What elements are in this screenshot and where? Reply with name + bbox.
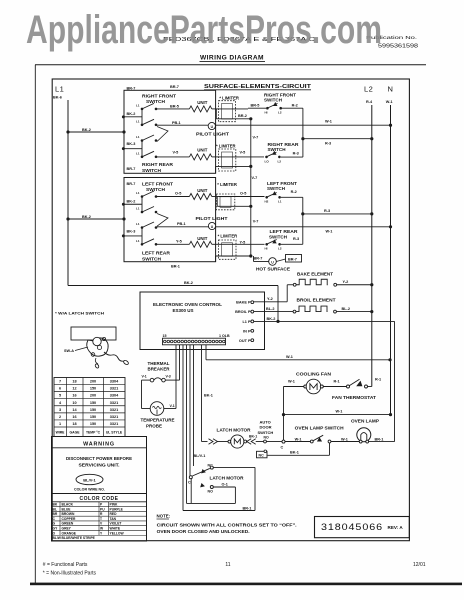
cooling fan motor xyxy=(284,371,347,394)
svg-text:* LIMITER: * LIMITER xyxy=(218,234,238,239)
svg-text:HI: HI xyxy=(265,246,268,250)
node L1 xyxy=(53,85,64,100)
wire BK-1 return xyxy=(257,443,330,458)
svg-text:GY: GY xyxy=(53,527,59,531)
svg-text:Y-5: Y-5 xyxy=(240,241,246,245)
svg-text:AUTO: AUTO xyxy=(260,419,271,424)
svg-text:FAN THERMOSTAT: FAN THERMOSTAT xyxy=(332,395,376,400)
svg-text:* LIMITER: * LIMITER xyxy=(217,182,237,187)
svg-text:LATCH MOTOR: LATCH MOTOR xyxy=(217,427,252,432)
svg-text:L1: L1 xyxy=(136,239,140,243)
wire R-2 drop 2 xyxy=(302,197,304,244)
svg-text:Y-5: Y-5 xyxy=(176,239,182,243)
svg-text:V-7: V-7 xyxy=(252,176,258,180)
switch right-rear remote xyxy=(265,142,303,163)
svg-text:WIRE: WIRE xyxy=(56,430,66,434)
svg-text:V-1: V-1 xyxy=(142,375,147,379)
switch box S2 outline xyxy=(124,178,216,262)
svg-text:BK-2: BK-2 xyxy=(127,200,136,204)
svg-text:5995361598: 5995361598 xyxy=(378,44,418,50)
svg-text:UL STYLE: UL STYLE xyxy=(106,430,123,434)
svg-text:BROIL ELEMENT: BROIL ELEMENT xyxy=(297,297,336,302)
svg-text:RIGHT FRONT: RIGHT FRONT xyxy=(142,93,176,98)
svg-text:BK-3: BK-3 xyxy=(127,230,136,234)
wire to V7 row B xyxy=(216,165,253,174)
svg-text:L1: L1 xyxy=(136,151,140,155)
svg-text:OVEN LAMP SWITCH: OVEN LAMP SWITCH xyxy=(295,425,344,430)
svg-text:VIOLET: VIOLET xyxy=(110,522,122,526)
limiter C dashed xyxy=(216,182,264,210)
switch left-front remote xyxy=(265,181,303,204)
svg-text:OVEN DOOR CLOSED AND UNLOCKED.: OVEN DOOR CLOSED AND UNLOCKED. xyxy=(157,529,250,534)
svg-text:SWITCH: SWITCH xyxy=(269,234,287,239)
svg-text:16: 16 xyxy=(72,415,76,419)
svg-text:LO: LO xyxy=(265,159,270,163)
svg-text:318045066: 318045066 xyxy=(321,522,383,533)
svg-text:BR-7: BR-7 xyxy=(254,257,263,261)
svg-text:V-5: V-5 xyxy=(240,150,246,154)
wire R-3 row A xyxy=(301,137,373,145)
svg-text:OUT P: OUT P xyxy=(239,339,251,343)
svg-text:L2: L2 xyxy=(278,159,282,163)
svg-text:150: 150 xyxy=(90,415,96,419)
svg-text:BK: BK xyxy=(53,503,58,507)
svg-text:7: 7 xyxy=(59,380,61,384)
svg-text:LATCH MOTOR: LATCH MOTOR xyxy=(210,475,245,480)
svg-text:ORANGE: ORANGE xyxy=(62,531,77,535)
svg-text:3321: 3321 xyxy=(110,401,118,405)
svg-text:BK-1: BK-1 xyxy=(204,394,213,398)
svg-text:SWITCH: SWITCH xyxy=(258,430,274,435)
svg-text:Y-2: Y-2 xyxy=(267,297,273,301)
wire Y-5 row D xyxy=(156,239,189,244)
svg-text:WHITE: WHITE xyxy=(110,527,121,531)
svg-text:PB-1: PB-1 xyxy=(177,222,186,226)
page top rule xyxy=(35,64,426,66)
svg-text:BL/V-1: BL/V-1 xyxy=(83,477,96,482)
resistor UNIT B xyxy=(189,148,219,160)
resistor UNIT D xyxy=(189,236,219,247)
svg-text:150: 150 xyxy=(90,401,96,405)
limiter A dashed xyxy=(219,95,249,121)
switch S2c/S2d pair (left rear) xyxy=(122,234,125,237)
latch motor box wire xyxy=(183,467,255,510)
svg-text:* W/A LATCH SWITCH: * W/A LATCH SWITCH xyxy=(55,311,104,316)
pilot light 1 xyxy=(156,121,391,137)
svg-text:BR-7: BR-7 xyxy=(127,182,136,186)
svg-text:200: 200 xyxy=(90,380,96,384)
svg-text:PURPLE: PURPLE xyxy=(110,507,124,511)
svg-text:T: T xyxy=(100,517,102,521)
svg-text:NO: NO xyxy=(208,490,214,494)
latch motor switch NC xyxy=(188,463,213,484)
wire L1 P feed xyxy=(254,317,395,442)
svg-text:R-3: R-3 xyxy=(293,152,299,156)
svg-text:C: C xyxy=(281,445,284,449)
svg-text:G: G xyxy=(53,522,56,526)
oven lamp switch xyxy=(285,425,359,443)
svg-text:* LIMITER: * LIMITER xyxy=(216,143,236,148)
svg-text:L2: L2 xyxy=(278,246,282,250)
svg-text:R-1: R-1 xyxy=(334,379,340,383)
switch right-front remote xyxy=(248,92,303,114)
svg-text:1 OLB: 1 OLB xyxy=(219,334,230,338)
svg-text:BL-2: BL-2 xyxy=(342,307,350,311)
svg-text:NOTE:: NOTE: xyxy=(157,514,171,519)
svg-text:SWITCH: SWITCH xyxy=(142,168,162,173)
svg-text:BR: BR xyxy=(53,512,58,516)
svg-text:THERMAL: THERMAL xyxy=(148,361,170,366)
wire W-1 to N xyxy=(282,387,392,442)
svg-text:R-3: R-3 xyxy=(324,209,330,213)
svg-text:COLOR CODE: COLOR CODE xyxy=(80,496,119,502)
svg-text:1: 1 xyxy=(59,422,61,426)
svg-text:TEMPERATURE: TEMPERATURE xyxy=(141,417,175,422)
svg-text:R-3: R-3 xyxy=(325,141,331,145)
svg-text:BAKE P: BAKE P xyxy=(236,301,251,305)
svg-text:COLOR WIRE NO.: COLOR WIRE NO. xyxy=(74,488,105,492)
svg-text:BK-1: BK-1 xyxy=(290,451,299,455)
svg-text:BR-5: BR-5 xyxy=(251,103,260,107)
svg-text:W-1: W-1 xyxy=(336,409,343,413)
svg-text:# = Functional Parts: # = Functional Parts xyxy=(43,562,88,568)
svg-text:HOT SURFACE: HOT SURFACE xyxy=(256,267,290,272)
svg-text:L1: L1 xyxy=(55,85,64,94)
svg-text:N: N xyxy=(388,85,393,94)
svg-text:BR-7: BR-7 xyxy=(127,86,136,90)
svg-text:BK-2: BK-2 xyxy=(82,215,91,219)
svg-text:LEFT FRONT: LEFT FRONT xyxy=(142,181,173,186)
svg-text:O-5: O-5 xyxy=(175,192,181,196)
svg-text:W-1: W-1 xyxy=(288,379,295,383)
node N xyxy=(386,85,393,105)
svg-text:L2: L2 xyxy=(278,111,282,115)
svg-text:C: C xyxy=(188,480,191,484)
resistor UNIT C xyxy=(189,188,219,200)
svg-text:COOLING FAN: COOLING FAN xyxy=(296,371,331,376)
svg-text:3321: 3321 xyxy=(110,387,118,391)
switch S1c/S1d pair (right rear) xyxy=(122,147,125,150)
oven control U1 box xyxy=(140,292,265,350)
linkage S1 xyxy=(157,127,168,142)
svg-text:BR-1: BR-1 xyxy=(243,506,252,510)
svg-text:BR-7: BR-7 xyxy=(127,167,136,171)
svg-text:BR-7: BR-7 xyxy=(288,257,297,261)
wire V-7 bus xyxy=(251,119,259,256)
svg-text:COPPER: COPPER xyxy=(62,517,77,521)
svg-text:GREY: GREY xyxy=(62,527,72,531)
svg-text:11: 11 xyxy=(225,562,230,568)
svg-text:BK-1: BK-1 xyxy=(249,435,257,439)
wire N bus xyxy=(390,105,392,415)
svg-text:BL/W: BL/W xyxy=(53,536,62,540)
svg-text:R-2: R-2 xyxy=(292,103,298,107)
wire V-5 row B xyxy=(156,150,189,157)
svg-text:BR-1: BR-1 xyxy=(375,437,384,441)
page bottom thick rule xyxy=(30,583,462,586)
svg-text:WIRING DIAGRAM: WIRING DIAGRAM xyxy=(200,55,264,62)
diagram border frame xyxy=(52,79,409,541)
page left rule xyxy=(34,65,36,583)
svg-text:16: 16 xyxy=(72,394,76,398)
wire BK-2 from L1 to S2 xyxy=(66,215,125,221)
svg-text:BR-5: BR-5 xyxy=(170,104,179,108)
svg-text:3321: 3321 xyxy=(110,415,118,419)
svg-text:R-2: R-2 xyxy=(291,190,297,194)
svg-text:BK-2: BK-2 xyxy=(267,317,276,321)
auto door switch xyxy=(249,419,285,449)
wire V-1 loop xyxy=(142,380,151,408)
fan thermostat xyxy=(332,378,381,401)
svg-text:V-5: V-5 xyxy=(173,150,179,154)
svg-text:150: 150 xyxy=(90,408,96,412)
svg-text:L1: L1 xyxy=(136,207,140,211)
svg-text:BREAKER: BREAKER xyxy=(148,367,171,372)
svg-text:6: 6 xyxy=(59,387,61,391)
svg-text:IN P: IN P xyxy=(243,329,251,333)
svg-text:5: 5 xyxy=(59,394,61,398)
svg-text:BROWN: BROWN xyxy=(62,512,75,516)
text LEFT REAR SWITCH xyxy=(142,251,171,262)
svg-text:OVEN LAMP: OVEN LAMP xyxy=(351,419,379,424)
svg-text:PILOT LIGHT: PILOT LIGHT xyxy=(196,132,229,137)
wire W-1 lower bus xyxy=(206,345,392,362)
svg-text:V-7: V-7 xyxy=(253,135,259,139)
svg-text:PILOT LIGHT: PILOT LIGHT xyxy=(196,216,228,221)
svg-text:SERVICING UNIT.: SERVICING UNIT. xyxy=(79,462,120,467)
latch motor M1 xyxy=(202,427,264,448)
oven lamp xyxy=(351,419,395,443)
text RIGHT FRONT SWITCH xyxy=(142,93,176,104)
svg-text:200: 200 xyxy=(90,394,96,398)
wire BK-2 from L1 to S1 xyxy=(66,128,125,134)
svg-text:PU: PU xyxy=(100,507,105,511)
svg-text:BK-3: BK-3 xyxy=(127,142,136,146)
svg-text:O-5: O-5 xyxy=(240,191,246,195)
wire BK-2 bus to U1 xyxy=(68,281,280,323)
svg-text:GAGE: GAGE xyxy=(70,430,81,434)
svg-text:L1: L1 xyxy=(136,119,140,123)
svg-text:3304: 3304 xyxy=(110,394,119,398)
wire BR-2 to V7 xyxy=(216,109,252,121)
svg-text:BR-7: BR-7 xyxy=(170,85,179,89)
text RIGHT REAR SWITCH xyxy=(142,162,174,173)
wire BL-2 broil feed xyxy=(254,307,293,312)
svg-text:DISCONNECT POWER BEFORE: DISCONNECT POWER BEFORE xyxy=(66,456,132,461)
svg-text:W-1: W-1 xyxy=(286,355,293,359)
svg-text:PROBE: PROBE xyxy=(146,423,162,428)
svg-text:SWITCH: SWITCH xyxy=(146,187,166,192)
svg-text:O: O xyxy=(53,531,56,535)
svg-text:SWITCH: SWITCH xyxy=(142,257,162,262)
title WIRING DIAGRAM xyxy=(200,55,266,62)
svg-text:* = Non-Illustrated Parts: * = Non-Illustrated Parts xyxy=(43,571,97,577)
wire R-2 drop xyxy=(302,108,304,157)
svg-text:R-1: R-1 xyxy=(375,378,381,382)
svg-text:SWITCH: SWITCH xyxy=(268,147,286,152)
svg-text:L1: L1 xyxy=(278,199,282,203)
svg-text:BLUE: BLUE xyxy=(62,507,72,511)
limiter B dashed xyxy=(216,143,264,171)
svg-text:ES300 US: ES300 US xyxy=(173,308,194,313)
part number box xyxy=(315,517,410,538)
svg-text:H2: H2 xyxy=(265,199,269,203)
U1 pin labels xyxy=(235,301,254,343)
svg-text:BLACK: BLACK xyxy=(62,503,74,507)
wire L2 bus xyxy=(371,105,373,387)
hot surface light xyxy=(254,256,291,272)
svg-text:REV: A: REV: A xyxy=(388,525,404,530)
svg-text:V-3: V-3 xyxy=(166,375,171,379)
svg-text:12/01: 12/01 xyxy=(413,562,426,568)
svg-text:15: 15 xyxy=(163,334,167,338)
svg-text:W-1: W-1 xyxy=(341,438,348,442)
wire to V7 row D xyxy=(216,254,253,261)
svg-text:BL/V-1: BL/V-1 xyxy=(194,454,206,458)
wire to V7 row C xyxy=(217,197,252,208)
svg-text:BR-1: BR-1 xyxy=(171,264,180,268)
limiter D dashed xyxy=(218,234,265,260)
svg-text:SWITCH: SWITCH xyxy=(267,186,285,191)
wires from U1 strip down xyxy=(176,345,213,511)
svg-text:Y-2: Y-2 xyxy=(343,280,349,284)
boxed connector BR-7 xyxy=(276,255,301,263)
svg-text:150: 150 xyxy=(90,422,96,426)
svg-text:CIRCUIT SHOWN WITH ALL CONTROL: CIRCUIT SHOWN WITH ALL CONTROLS SET TO “… xyxy=(157,522,297,527)
svg-text:BROIL P: BROIL P xyxy=(235,310,251,314)
latch motor switch NO xyxy=(200,482,228,493)
svg-text:* LIMITER: * LIMITER xyxy=(219,95,239,100)
svg-text:L2: L2 xyxy=(364,85,373,94)
svg-text:UNIT: UNIT xyxy=(197,188,208,193)
publication number xyxy=(366,35,418,50)
svg-text:RIGHT REAR: RIGHT REAR xyxy=(142,162,174,167)
svg-text:R-4: R-4 xyxy=(366,100,373,104)
wire Y-2 to L2 xyxy=(337,280,374,286)
svg-text:O-1: O-1 xyxy=(222,482,228,486)
switch S2a/S2b pair (left front) xyxy=(122,203,125,206)
svg-text:SWITCH: SWITCH xyxy=(146,99,166,104)
svg-text:GREEN: GREEN xyxy=(62,522,74,526)
thermal breaker xyxy=(142,361,180,382)
svg-text:18: 18 xyxy=(72,422,76,426)
wire O-5 row C xyxy=(156,192,189,197)
svg-text:R-3: R-3 xyxy=(293,237,299,241)
svg-text:V-1: V-1 xyxy=(170,404,175,408)
footer legend xyxy=(43,562,97,577)
svg-text:L1 P: L1 P xyxy=(242,320,250,324)
svg-text:10: 10 xyxy=(72,401,76,405)
broil element xyxy=(293,297,336,313)
svg-text:HI: HI xyxy=(265,111,268,115)
linkage S2 xyxy=(157,214,168,227)
svg-text:BK-2: BK-2 xyxy=(127,112,136,116)
temperature probe xyxy=(141,402,177,429)
bake element xyxy=(287,271,336,286)
svg-text:V-7: V-7 xyxy=(253,220,259,224)
svg-text:NO: NO xyxy=(264,435,270,439)
svg-text:BL: BL xyxy=(53,507,57,511)
wire gauge table xyxy=(54,378,125,437)
svg-text:W-1: W-1 xyxy=(326,229,333,233)
svg-text:TAN: TAN xyxy=(110,517,117,521)
wire NO loop xyxy=(187,479,236,504)
node L2 xyxy=(364,85,373,105)
svg-text:3321: 3321 xyxy=(110,422,118,426)
svg-text:UNIT: UNIT xyxy=(197,100,208,105)
svg-text:W-1: W-1 xyxy=(325,119,332,123)
note text xyxy=(157,514,297,534)
resistor UNIT A xyxy=(189,100,219,112)
svg-text:L1: L1 xyxy=(136,103,140,107)
svg-text:ELECTRONIC OVEN CONTROL: ELECTRONIC OVEN CONTROL xyxy=(153,302,222,307)
svg-text:PB-1: PB-1 xyxy=(172,121,181,125)
svg-text:AppliancePartsPros.com: AppliancePartsPros.com xyxy=(26,8,382,52)
svg-text:BLUE/WHITE STRIPE: BLUE/WHITE STRIPE xyxy=(62,536,96,540)
svg-text:150: 150 xyxy=(90,387,96,391)
switch left-rear remote xyxy=(265,229,303,250)
svg-text:12: 12 xyxy=(72,387,76,391)
pilot light 2 xyxy=(156,216,391,230)
svg-text:3: 3 xyxy=(59,408,61,412)
switch box S1 outline xyxy=(124,90,216,173)
svg-text:L1: L1 xyxy=(136,135,140,139)
svg-text:L1: L1 xyxy=(136,222,140,226)
svg-text:2: 2 xyxy=(59,415,61,419)
switch S1a/S1b pair (right front) xyxy=(122,115,125,118)
color code table xyxy=(52,494,147,542)
latch switch SW-A mechanism xyxy=(55,311,129,369)
svg-text:NC: NC xyxy=(259,453,265,457)
svg-text:SWITCH: SWITCH xyxy=(264,98,282,103)
svg-text:3304: 3304 xyxy=(110,380,119,384)
wire BL-2 to L2 xyxy=(337,307,374,313)
svg-text:BK-2: BK-2 xyxy=(184,281,193,285)
title SURFACE-ELEMENTS-CIRCUIT xyxy=(170,84,312,90)
wire Y-2 bake feed xyxy=(254,285,288,302)
wire R-3 row C xyxy=(301,209,373,215)
svg-text:TEMP °C: TEMP °C xyxy=(86,430,101,434)
svg-text:LEFT REAR: LEFT REAR xyxy=(142,251,171,256)
text LEFT FRONT SWITCH xyxy=(142,181,173,192)
svg-text:L1: L1 xyxy=(136,191,140,195)
svg-text:SURFACE-ELEMENTS-CIRCUIT: SURFACE-ELEMENTS-CIRCUIT xyxy=(204,84,312,90)
svg-text:SW-A: SW-A xyxy=(64,349,74,353)
svg-text:BR-2: BR-2 xyxy=(238,114,247,118)
svg-text:UNIT: UNIT xyxy=(197,148,208,153)
svg-text:18: 18 xyxy=(72,380,76,384)
svg-text:W-1: W-1 xyxy=(295,438,302,442)
svg-text:BAKE ELEMENT: BAKE ELEMENT xyxy=(297,271,333,276)
svg-text:BK-6: BK-6 xyxy=(53,95,62,99)
svg-text:3321: 3321 xyxy=(110,408,118,412)
wire L1 bus xyxy=(67,100,69,286)
svg-text:DOOR: DOOR xyxy=(260,425,272,430)
svg-text:UNIT: UNIT xyxy=(197,236,208,241)
svg-text:RED: RED xyxy=(110,512,118,516)
svg-text:YELLOW: YELLOW xyxy=(110,531,125,535)
svg-text:PINK: PINK xyxy=(110,503,118,507)
svg-text:W-1: W-1 xyxy=(386,100,393,104)
svg-text:BK-2: BK-2 xyxy=(82,128,91,132)
svg-text:BL-2: BL-2 xyxy=(266,307,274,311)
warning box xyxy=(52,437,147,494)
U1 terminal strip xyxy=(163,334,230,345)
wire BR-5 row A xyxy=(156,104,189,109)
svg-text:WARNING: WARNING xyxy=(83,441,115,447)
